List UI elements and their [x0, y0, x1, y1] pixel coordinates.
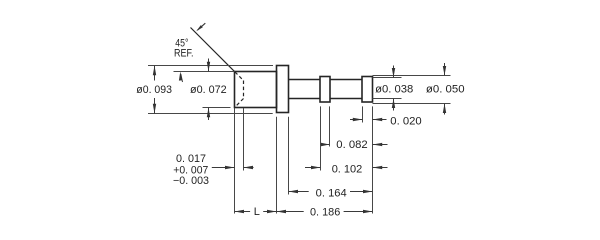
svg-text:0. 082: 0. 082	[336, 139, 367, 151]
dimension dia 0.050 (outside arrows)	[443, 63, 446, 115]
hidden hole entry chamfer (dashed)	[235, 72, 244, 107]
dimension 0.082 row (outside arrows)	[321, 143, 388, 146]
ext chamfer depth	[243, 108, 245, 171]
ext ring1 right	[329, 106, 331, 146]
svg-text:ø0. 050: ø0. 050	[426, 83, 465, 95]
svg-text:REF.: REF.	[174, 47, 194, 59]
dimension 0.102 row (outside arrows)	[305, 166, 388, 169]
dimension L row	[235, 210, 277, 213]
dimension dia 0.093	[153, 66, 156, 114]
ring R1 (O0.050 barb)	[320, 77, 330, 103]
svg-text:−0. 003: −0. 003	[173, 175, 209, 187]
svg-text:ø0. 093: ø0. 093	[136, 84, 172, 96]
dimension dia 0.072 (outside arrows)	[179, 59, 210, 121]
svg-text:ø0. 072: ø0. 072	[190, 84, 227, 96]
receptacle body (O0.072 barrel)	[235, 72, 277, 108]
leader from 072 label to body top ext line	[181, 74, 183, 82]
ext line flange bottom (for dia 0.093)	[148, 113, 273, 115]
svg-text:ø0. 038: ø0. 038	[375, 83, 413, 95]
svg-text:0. 102: 0. 102	[332, 163, 363, 175]
ext line ring top (for dia 0.050)	[373, 75, 451, 77]
leader arrow to chamfer line	[196, 23, 205, 31]
flange (O0.093 collar)	[277, 66, 289, 113]
svg-text:L: L	[254, 206, 260, 218]
ext flange right	[288, 117, 290, 195]
shaft segment 2 (O0.038 tail)	[330, 80, 362, 99]
45 degree chamfer construction line	[191, 28, 235, 72]
ext part end	[372, 106, 374, 213]
ext flange left	[276, 117, 278, 214]
dimension dia 0.038 (outside arrows)	[392, 66, 395, 111]
ext line flange top (for dia 0.093)	[148, 65, 273, 67]
ext line body top (for dia 0.072)	[174, 71, 235, 73]
ext body left face	[234, 108, 236, 214]
label 45 REF	[174, 38, 194, 60]
dimension 0.020 row	[350, 118, 387, 121]
label 0.017 +0.007 -0.003	[173, 153, 209, 187]
ext ring1 left	[320, 106, 322, 170]
svg-text:0. 164: 0. 164	[316, 187, 347, 199]
ring R2 (O0.050 barb at end)	[362, 77, 373, 103]
svg-text:0. 017: 0. 017	[176, 153, 206, 165]
ext line shaft top (for dia 0.038)	[373, 77, 402, 79]
ext ring2 left	[362, 106, 364, 122]
dimension 0.017 row with arrows at chamfer depth	[212, 166, 254, 169]
svg-text:0. 020: 0. 020	[390, 115, 421, 127]
svg-text:0. 186: 0. 186	[310, 207, 340, 219]
dimension 0.186 row	[277, 210, 373, 213]
dimension 0.164 row	[289, 190, 373, 193]
shaft segment 1 (O0.038 tail)	[289, 80, 321, 99]
ext line ring bottom (for dia 0.050)	[373, 103, 451, 105]
ext line shaft bottom (for dia 0.038)	[373, 98, 402, 100]
ext line body bottom (for dia 0.072)	[203, 107, 231, 109]
